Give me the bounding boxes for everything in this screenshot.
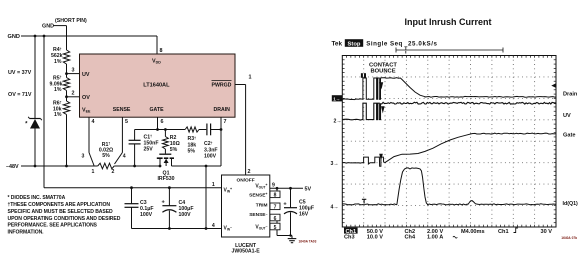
resistor R2 10ohm 5% [163,128,180,154]
svg-text:* DIODES INC. SMAT70A: * DIODES INC. SMAT70A [8,195,66,201]
marker channel 4 [331,204,339,210]
svg-text:5%: 5% [102,153,110,159]
module pin 6 box [270,214,280,222]
svg-text:UV = 37V: UV = 37V [8,70,32,76]
wire drain node to VIN- rail [205,165,208,230]
zener diode D1 SMAT70A [25,117,42,129]
svg-text:8: 8 [274,193,277,199]
svg-text:100V: 100V [179,212,192,218]
svg-text:1: 1 [212,182,215,188]
pin 4 VEE [89,117,95,165]
svg-text:GATE: GATE [150,107,165,113]
svg-text:R3†: R3† [188,136,197,142]
resistor R3 18k 5% [185,127,206,155]
wire R4-R5 node 3 [65,64,79,78]
svg-text:6: 6 [161,119,164,125]
svg-text:5%: 5% [188,149,196,155]
svg-text:OV = 71V: OV = 71V [8,92,32,98]
label Id(Q1) [563,201,579,207]
module pin 8 box [270,187,280,199]
wire gate node [135,129,186,131]
svg-text:2: 2 [72,91,75,97]
wire zener branch upper [34,36,36,119]
scope readout row 1 [344,228,552,235]
scope title Input Inrush Current [405,17,492,27]
node -48V [6,164,19,170]
svg-text:INFORMATION.: INFORMATION. [8,229,45,235]
svg-text:Ch3: Ch3 [344,235,355,241]
wire PWRGD to ON/OFF [235,74,252,175]
svg-text:1: 1 [249,74,252,80]
svg-text:3→: 3→ [331,161,339,167]
svg-text:C3: C3 [140,200,147,206]
svg-text:JW050A1-E: JW050A1-E [231,249,260,255]
label OV = 71V [8,92,32,98]
svg-text:SENSE: SENSE [113,107,131,113]
svg-text:25V: 25V [144,146,154,152]
node 5V output [305,187,312,193]
pin 8 VDD [160,48,163,54]
svg-text:1: 1 [92,169,95,175]
svg-text:GND: GND [42,24,54,30]
svg-text:*: * [25,122,28,128]
trace Ch1 Drain [342,78,556,100]
transistor Q1 IRF530 [157,154,175,182]
wire VIN- rail [132,228,222,230]
svg-text:25.0kS/s: 25.0kS/s [408,41,438,48]
resistor R5 9.09k 1% [50,75,70,93]
trigger position bracket [396,47,503,54]
svg-text:(SHORT PIN): (SHORT PIN) [55,18,87,24]
capacitor C5 100uF 16V [283,187,314,236]
svg-text:SENSE+: SENSE+ [249,192,267,198]
svg-text:C5: C5 [299,199,306,205]
svg-text:GND: GND [8,34,20,40]
svg-text:1640A 07b: 1640A 07b [561,236,577,240]
wire -48V rail mid [114,165,160,167]
marker channel 1 [332,95,342,101]
label Gate [563,133,575,139]
annotation CONTACT BOUNCE [362,62,398,161]
trigger point marker T on Ch4 [362,199,366,203]
svg-text:–48V: –48V [6,164,19,170]
wire short-pin to divider [54,26,67,50]
svg-text:BOUNCE: BOUNCE [370,68,395,74]
svg-text:3: 3 [82,154,85,160]
svg-text:7: 7 [224,119,227,125]
capacitor C2 3.3nF 100V [204,124,221,160]
svg-text:7: 7 [274,205,277,211]
node GND (SHORT PIN) [42,18,87,30]
module name label [231,243,260,255]
wire GND rail [21,36,157,55]
module pin 5 box [270,221,280,236]
trigger level arrow [551,83,556,88]
svg-text:ON/OFF: ON/OFF [237,178,255,184]
svg-text:4: 4 [212,223,215,229]
module pin labels 1 and 4 [212,182,215,229]
svg-text:TRIM: TRIM [256,203,268,209]
svg-text:16V: 16V [299,211,309,217]
svg-text:Gate: Gate [563,133,575,139]
svg-text:UPON OPERATING CONDITIONS AND: UPON OPERATING CONDITIONS AND DESIRED [8,216,121,222]
op-amp U1 LT1640AL hot swap controller [80,54,236,117]
svg-text:Tek: Tek [332,41,343,48]
capacitor C3 0.1uF 100V [125,186,154,228]
resistor R6 10k 1% [53,100,70,118]
svg-text:2→: 2→ [334,118,342,124]
svg-text:5%: 5% [170,147,178,153]
svg-text:5: 5 [274,225,277,231]
wire R5-R6 node 2 [65,91,79,102]
svg-text:SENSE–: SENSE– [249,212,267,218]
pin 5 SENSE [115,117,129,164]
svg-text:5: 5 [125,119,128,125]
svg-text:Stop: Stop [348,42,361,48]
resistor R4 562k 1% [51,47,70,65]
scope graticule frame [342,56,556,228]
wire R6 to -48V rail [65,115,68,168]
svg-text:1640A TA03: 1640A TA03 [299,239,317,243]
svg-text:R5†: R5† [53,75,62,81]
pin 7 DRAIN [220,117,227,166]
svg-text:DRAIN: DRAIN [214,107,231,113]
svg-text:4: 4 [123,154,126,160]
figure tag TA03 [299,239,317,243]
capacitor C1 150nF 25V [129,130,159,168]
pin 6 GATE [156,117,163,131]
svg-text:2: 2 [112,169,115,175]
trace Ch4 Id(Q1) [342,168,556,205]
junction on GND rail (VIN+ branch) [43,35,46,38]
svg-text:IRF530: IRF530 [157,176,174,182]
svg-text:30 V: 30 V [541,229,553,235]
svg-text:C1†: C1† [144,134,153,140]
wire GND to VIN+ [44,36,222,188]
svg-text:Ch4: Ch4 [405,235,416,241]
module pin 9 [270,183,303,189]
trace Ch2 UV [342,102,556,120]
svg-text:LT1640AL: LT1640AL [143,83,170,89]
svg-text:OV: OV [82,95,90,101]
svg-text:9: 9 [272,183,275,189]
svg-text:4: 4 [92,119,95,125]
wire zener branch lower [34,129,37,168]
module pin 7 box [270,203,280,211]
label Drain [563,92,578,98]
svg-text:M4.00ms: M4.00ms [461,229,485,235]
scope readout row 2 [344,235,457,241]
svg-text:Input Inrush Current: Input Inrush Current [405,17,492,27]
svg-text:100V: 100V [204,153,217,159]
svg-text:3: 3 [72,68,75,74]
svg-text:4→: 4→ [331,204,339,210]
svg-text:Single Seq: Single Seq [366,41,402,48]
svg-text:+: + [283,202,287,208]
svg-text:1→: 1→ [333,96,340,101]
svg-text:Ch1: Ch1 [498,229,509,235]
marker channel 2 [334,118,342,124]
svg-text:UV: UV [82,72,90,78]
svg-text:C4: C4 [179,200,186,206]
footnote application notes [8,195,121,235]
svg-text:1%: 1% [54,87,62,93]
wire output ground [277,234,292,236]
svg-text:Drain: Drain [563,92,578,98]
label UV = 37V [8,70,32,76]
svg-text:+: + [162,200,166,206]
svg-text:5V: 5V [305,187,312,193]
module U2 LUCENT JW050A1-E [222,175,270,237]
wire -48V rail left [21,165,98,167]
scope status line Tek Stop Single Seq [332,39,438,48]
svg-text:2: 2 [248,169,251,175]
svg-text:C2†: C2† [204,141,213,147]
svg-text:6: 6 [274,216,277,222]
ground [288,236,297,243]
svg-text:†THESE COMPONENTS ARE APPLICAT: †THESE COMPONENTS ARE APPLICATION [8,202,111,208]
wire -48V rail right [172,165,222,167]
capacitor C4 100uF 100V [162,186,194,230]
node GND [8,34,20,40]
svg-text:SPECIFIC AND MUST BE SELECTED: SPECIFIC AND MUST BE SELECTED BASED [8,209,114,215]
marker channel 3 [331,161,339,167]
svg-text:UV: UV [563,113,571,119]
svg-text:1%: 1% [54,59,62,65]
trace Ch3 Gate [342,133,556,166]
label UV [563,113,571,119]
figure tag TA04 [561,236,577,240]
svg-text:10.0 V: 10.0 V [367,235,383,241]
R1 terminal labels [82,154,126,176]
junction on GND rail (zener branch) [34,35,37,38]
svg-text:Id(Q1): Id(Q1) [563,201,579,207]
svg-text:PERFORMANCE. SEE APPLICATIONS: PERFORMANCE. SEE APPLICATIONS [8,223,98,229]
svg-text:8: 8 [160,48,163,54]
svg-text:1.00 A: 1.00 A [427,235,443,241]
resistor R1 0.02ohm 5% (sense) [98,141,115,168]
svg-text:1%: 1% [54,112,62,118]
svg-text:PWRGD: PWRGD [212,83,232,89]
svg-text:100V: 100V [140,212,153,218]
